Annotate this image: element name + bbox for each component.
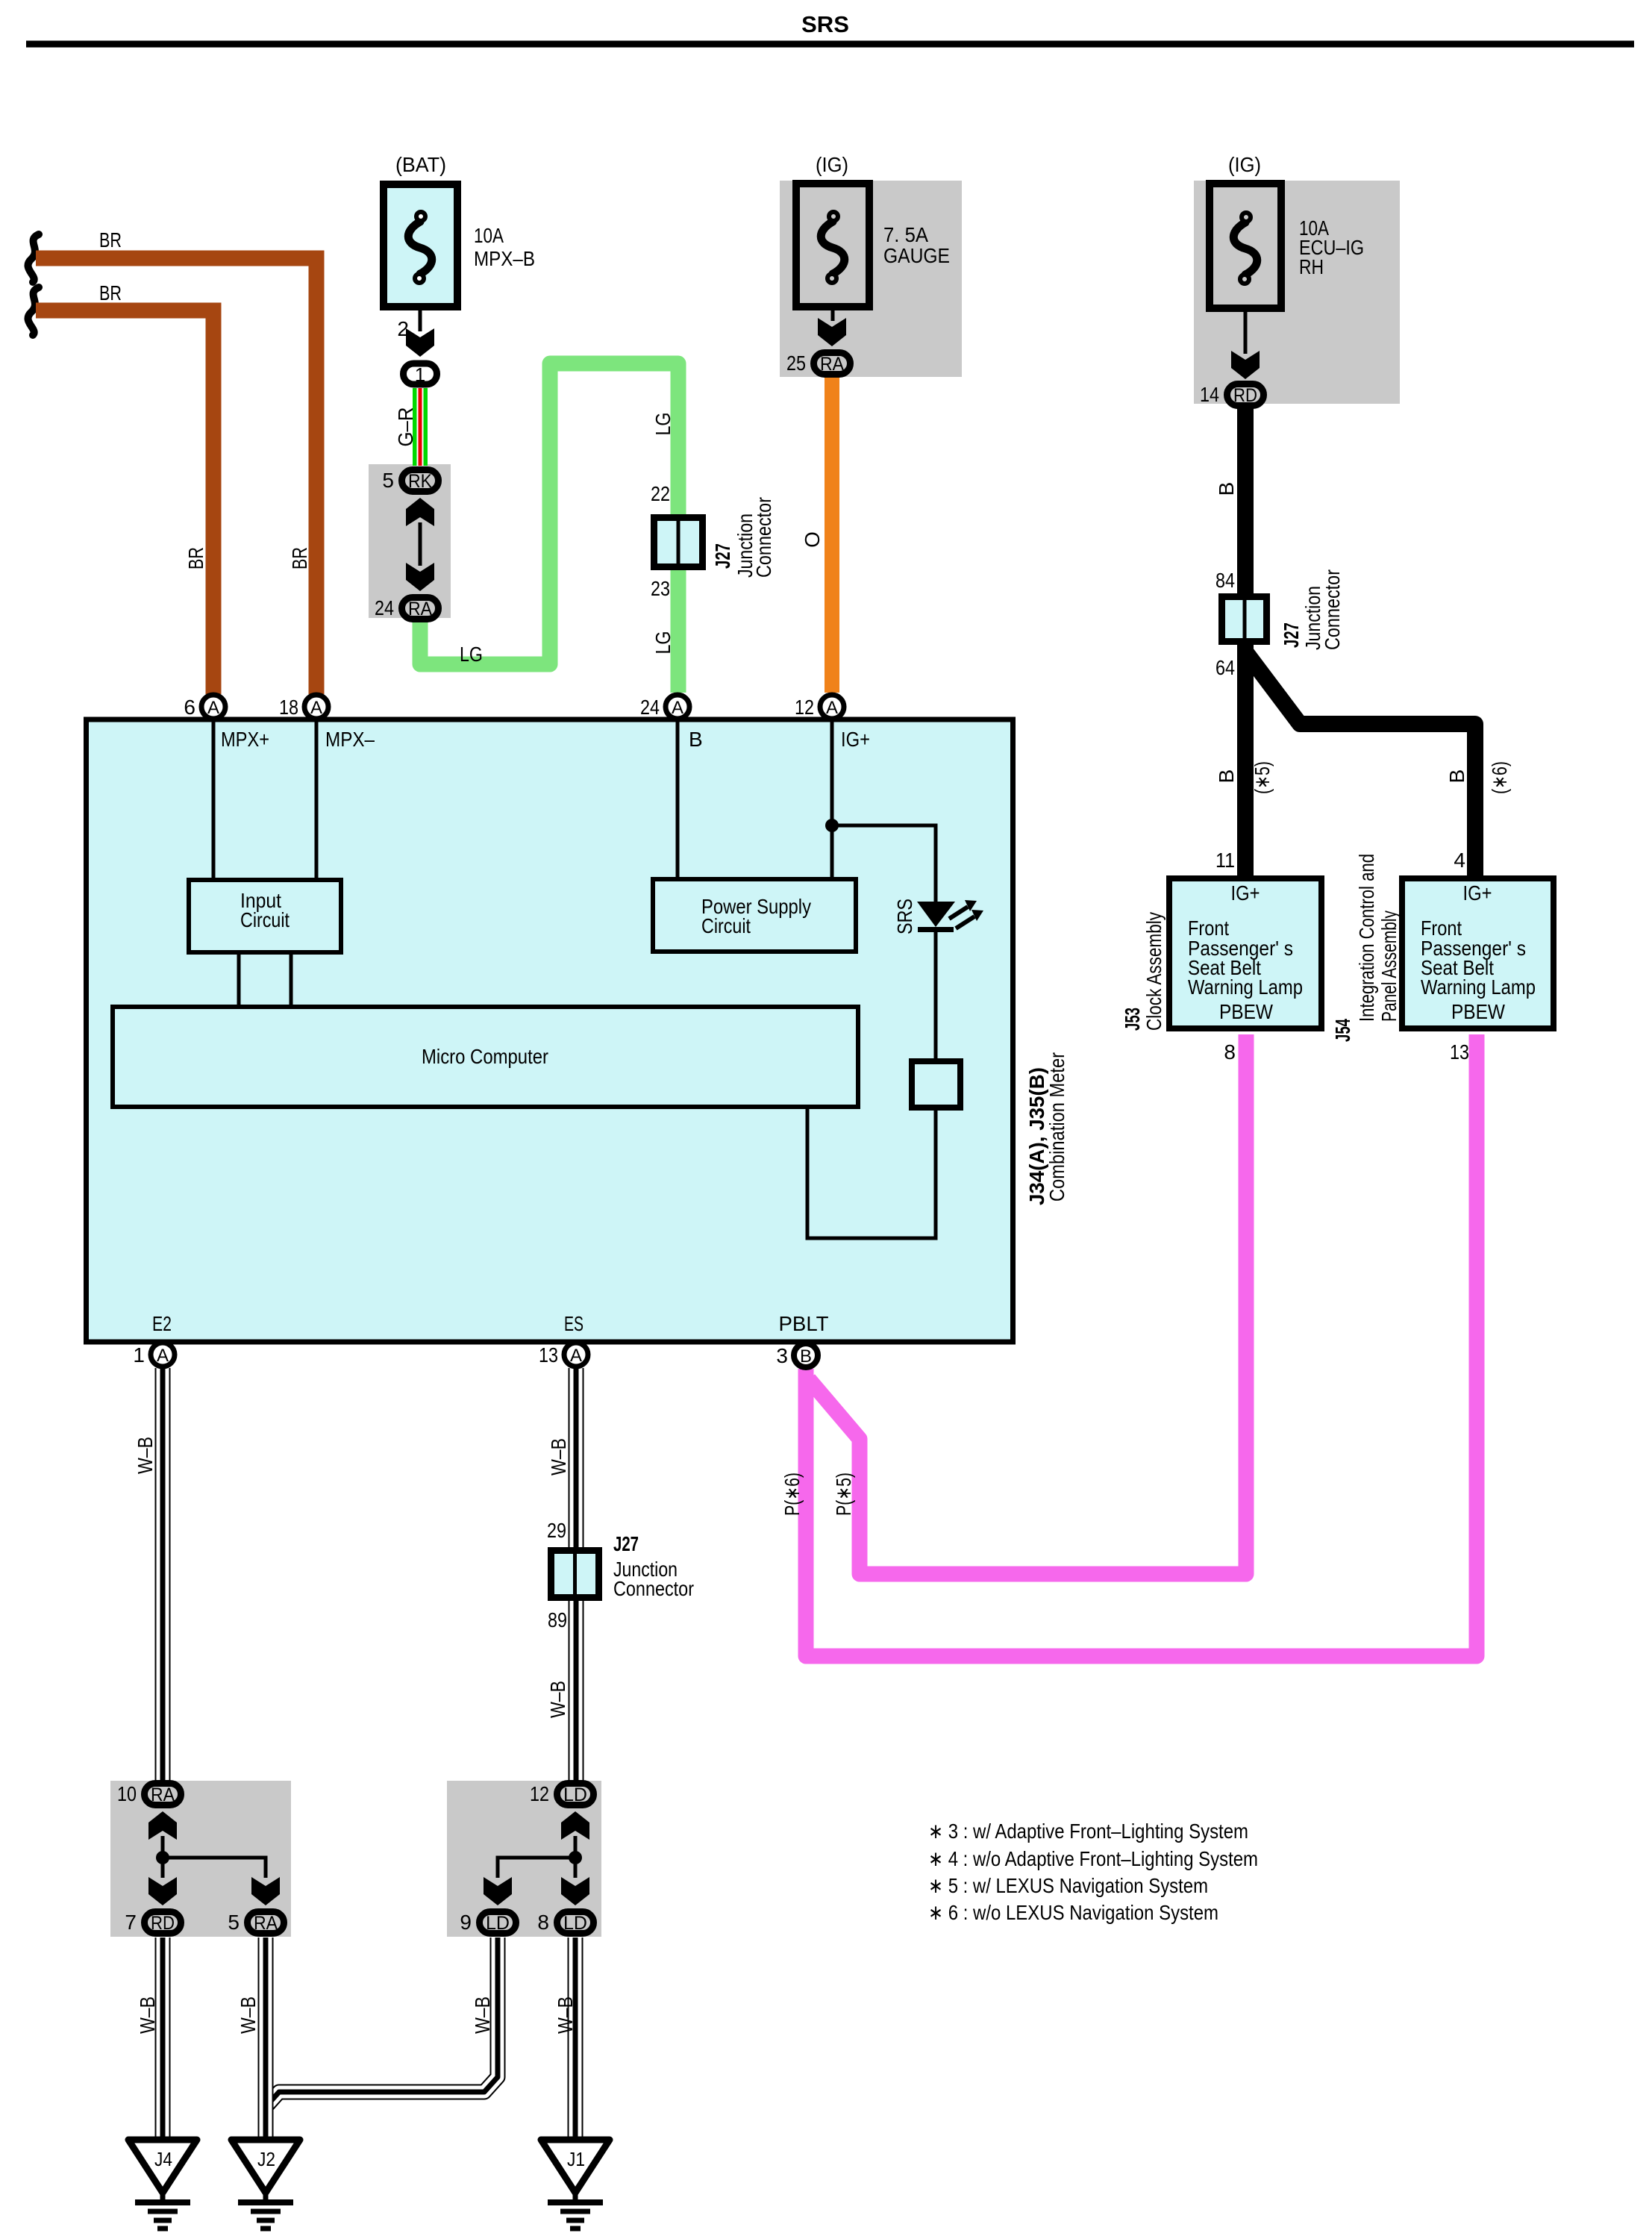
svg-text:∗ 5 : w/ LEXUS Navigation Syst: ∗ 5 : w/ LEXUS Navigation System [928, 1874, 1208, 1897]
svg-text:8: 8 [537, 1911, 549, 1934]
label J54 Integration Control and Panel Assembly rotated [1331, 854, 1401, 1042]
input circuit box [189, 880, 341, 952]
arrow up into 10RA [148, 1811, 177, 1840]
wire W-B from pin 13 ES to 12LD through J27 [569, 1368, 584, 1781]
svg-text:24: 24 [640, 696, 660, 719]
svg-text:W–B: W–B [237, 1996, 260, 2034]
svg-text:GAUGE: GAUGE [883, 244, 950, 267]
arrow down into 8LD [561, 1877, 589, 1905]
pin 6 label [184, 696, 195, 719]
svg-text:A: A [310, 698, 322, 718]
pin 10 label [117, 1782, 137, 1805]
pin name MPX- [325, 728, 375, 751]
connector 5 RA [248, 1912, 284, 1934]
pin 13 A connector [564, 1343, 588, 1367]
pin name PBLT [779, 1312, 829, 1335]
pin 24 label [375, 596, 394, 619]
svg-text:J53: J53 [1121, 1008, 1144, 1031]
shield grey box of connectors 10RA/7RD/5RA [110, 1781, 291, 1937]
svg-text:ES: ES [564, 1312, 583, 1335]
LED emission arrows [949, 900, 983, 928]
connector 24 RA [402, 598, 439, 620]
fuse MPX-B label (BAT) [395, 153, 446, 176]
junction dot left group [156, 1851, 169, 1864]
svg-text:PBLT: PBLT [779, 1312, 829, 1335]
svg-text:P(∗5): P(∗5) [832, 1473, 855, 1516]
arrow into 25RA [818, 318, 846, 346]
svg-text:IG+: IG+ [841, 728, 870, 751]
svg-text:A: A [157, 1346, 169, 1366]
pin 1 A connector [151, 1343, 175, 1367]
junction connector J27 (22/23) box [654, 518, 703, 567]
svg-text:Circuit: Circuit [701, 914, 751, 937]
arrow into 14RD [1231, 351, 1260, 379]
pin 12 A connector [820, 695, 844, 719]
svg-text:W–B: W–B [554, 1996, 577, 2034]
svg-text:W–B: W–B [471, 1996, 494, 2034]
wire LG loop from 24RA to pin 24 [420, 363, 678, 693]
pin 12 label [795, 696, 814, 719]
label B rotated right branch [1445, 769, 1468, 784]
fuse ECU-IG box [1210, 184, 1281, 308]
pin name B [689, 728, 703, 751]
label P(*6) rotated [780, 1473, 804, 1516]
pin 3 label [776, 1344, 788, 1367]
note *4 [928, 1847, 1258, 1870]
wire P pink from pin 3 PBLT to J54 pin 13 [806, 1034, 1477, 1656]
J53 clock assembly box [1169, 878, 1321, 1028]
wire fuse MPX-B to connector 1 [419, 310, 422, 331]
label Input Circuit [240, 889, 290, 931]
label PBEW J54 [1451, 1000, 1505, 1023]
svg-text:RA: RA [151, 1784, 175, 1805]
ground J4 [128, 2140, 197, 2229]
svg-text:7. 5A: 7. 5A [883, 223, 928, 246]
label Micro Computer [422, 1045, 548, 1068]
svg-text:A: A [826, 698, 838, 718]
pin 18 label [279, 696, 298, 719]
connector 14 RD [1227, 384, 1264, 407]
note *3 [928, 1820, 1248, 1843]
svg-text:LG: LG [651, 631, 675, 655]
wire B black from 14RD to J53 pin 11 [1237, 407, 1254, 878]
pin 12 label (bottom) [530, 1782, 549, 1805]
fuse GAUGE label (IG) [816, 153, 848, 176]
LED SRS indicator [917, 902, 955, 932]
junction dot right group [569, 1851, 582, 1864]
svg-text:LG: LG [460, 643, 483, 666]
svg-text:18: 18 [279, 696, 298, 719]
fuse GAUGE element [821, 212, 845, 283]
svg-text:W–B: W–B [546, 1681, 569, 1718]
pin name IG+ [841, 728, 870, 751]
label J27 rotated [711, 543, 734, 569]
svg-text:J27: J27 [1280, 622, 1303, 648]
label B rotated top [1215, 482, 1238, 496]
pin 4 label [1454, 849, 1465, 872]
svg-text:10: 10 [117, 1782, 137, 1805]
label J34(A), J35(B) Combination Meter rotated [1025, 1052, 1069, 1205]
svg-text:13: 13 [539, 1343, 558, 1367]
label J53 Clock Assembly rotated [1121, 912, 1166, 1031]
label IG+ J54 [1463, 881, 1492, 905]
svg-text:J54: J54 [1331, 1019, 1354, 1042]
svg-text:Connector: Connector [613, 1577, 694, 1600]
label LG rotated above J27 [651, 413, 675, 436]
pin 2 label [397, 317, 409, 340]
pin 11 label [1215, 849, 1235, 872]
label W-B rotated on 5RA wire [237, 1996, 260, 2034]
svg-text:LD: LD [486, 1913, 510, 1934]
svg-text:(∗5): (∗5) [1251, 761, 1274, 794]
label LG horizontal [460, 643, 483, 666]
label BR rotated left wire [184, 547, 207, 569]
svg-text:A: A [570, 1346, 582, 1366]
svg-text:10A: 10A [474, 224, 504, 247]
internal wires left connector group [163, 1836, 266, 1878]
svg-text:Micro Computer: Micro Computer [422, 1045, 548, 1068]
svg-text:RA: RA [254, 1913, 278, 1934]
svg-text:BR: BR [184, 547, 207, 569]
svg-text:Combination Meter: Combination Meter [1045, 1052, 1069, 1202]
note *6 [928, 1901, 1218, 1924]
ground J2 [231, 2140, 300, 2229]
wire fuse ECU-IG to 14RD [1244, 312, 1248, 354]
label Junction Connector rotated (3rd) [1301, 569, 1344, 650]
svg-text:LD: LD [563, 1784, 587, 1805]
svg-text:Integration Control and: Integration Control and [1355, 854, 1378, 1022]
label W-B rotated on ES wire above J27 [547, 1438, 570, 1476]
label W-B rotated on 8LD wire [554, 1996, 577, 2034]
arrow up into 5RK [406, 498, 434, 526]
svg-text:Connector: Connector [1321, 569, 1344, 650]
svg-text:LG: LG [651, 413, 675, 436]
wire break squiggle lower BR [28, 287, 39, 335]
svg-text:∗ 4 : w/o Adaptive Front–Light: ∗ 4 : w/o Adaptive Front–Lighting System [928, 1847, 1258, 1870]
svg-text:RD: RD [151, 1913, 175, 1934]
fuse ECU-IG label (IG) [1228, 153, 1261, 176]
label BR lower [99, 281, 122, 305]
svg-text:RA: RA [820, 354, 844, 375]
wire IG+ branch to LED [832, 825, 936, 902]
svg-text:24: 24 [375, 596, 394, 619]
svg-text:W–B: W–B [134, 1437, 157, 1474]
svg-text:Clock Assembly: Clock Assembly [1142, 912, 1166, 1031]
pin 8 label (bottom) [537, 1911, 549, 1934]
svg-text:12: 12 [530, 1782, 549, 1805]
pin 1 label [133, 1343, 145, 1367]
svg-text:(IG): (IG) [1228, 153, 1261, 176]
wire B black branch to J54 pin 4 [1245, 652, 1475, 878]
fuse MPX-B element [408, 212, 432, 283]
svg-text:25: 25 [786, 352, 806, 375]
svg-text:23: 23 [651, 577, 670, 600]
svg-text:IG+: IG+ [1231, 881, 1260, 905]
label Front Passenger's Seat Belt Warning Lamp J54 [1421, 916, 1536, 999]
pin 13 label [539, 1343, 558, 1367]
title SRS [801, 11, 849, 37]
svg-text:RK: RK [408, 471, 432, 492]
arrow down into 24RA [406, 563, 434, 591]
svg-text:BR: BR [99, 228, 122, 252]
wire pin24 to power supply circuit [676, 722, 680, 878]
pin name ES [564, 1312, 583, 1335]
svg-text:O: O [801, 531, 824, 548]
ground J1 [541, 2140, 610, 2229]
junction dot on IG+ wire [825, 819, 839, 832]
pin 24 label [640, 696, 660, 719]
svg-text:7: 7 [125, 1911, 137, 1934]
svg-text:J4: J4 [154, 2148, 172, 2170]
pin 29 label [547, 1519, 566, 1542]
svg-text:G–R: G–R [394, 407, 417, 447]
pin name E2 [152, 1312, 172, 1335]
svg-text:8: 8 [1224, 1040, 1236, 1064]
label W-B rotated on 9LD wire [471, 1996, 494, 2034]
svg-text:W–B: W–B [547, 1438, 570, 1476]
shield grey box of connectors RK/RA [369, 464, 451, 618]
micro computer box [113, 1007, 858, 1107]
svg-text:∗ 3 : w/ Adaptive Front–Lighti: ∗ 3 : w/ Adaptive Front–Lighting System [928, 1820, 1248, 1843]
J54 integration control box [1402, 878, 1554, 1028]
svg-text:B: B [800, 1346, 812, 1367]
pin 25 label [786, 352, 806, 375]
svg-text:PBEW: PBEW [1451, 1000, 1505, 1023]
svg-text:84: 84 [1215, 569, 1235, 592]
wire resistor to micro computer loop [807, 1109, 936, 1238]
arrow into connector 1 [406, 328, 434, 357]
svg-text:A: A [672, 698, 683, 718]
connector 10 RA [145, 1784, 181, 1806]
header rule [26, 41, 1634, 48]
svg-text:A: A [207, 698, 219, 718]
svg-text:1: 1 [133, 1343, 145, 1367]
fuse ECU-IG element [1233, 213, 1257, 284]
wire W-B from 7RD to ground J4 [155, 1937, 171, 2139]
svg-text:J2: J2 [257, 2148, 275, 2170]
pin 24 A connector [666, 695, 689, 719]
svg-text:MPX–: MPX– [325, 728, 375, 751]
svg-text:BR: BR [288, 547, 311, 569]
wire O orange from 25RA to pin 12 [825, 377, 839, 693]
svg-text:RD: RD [1233, 385, 1257, 406]
svg-text:3: 3 [776, 1344, 788, 1367]
svg-text:12: 12 [795, 696, 814, 719]
wire pin18 to input circuit [315, 722, 319, 878]
svg-text:MPX+: MPX+ [221, 728, 269, 751]
label Front Passenger's Seat Belt Warning Lamp J53 [1188, 916, 1303, 999]
wire W-B from 8LD to ground J1 [568, 1937, 583, 2139]
svg-text:E2: E2 [152, 1312, 172, 1335]
svg-text:RH: RH [1299, 255, 1324, 278]
svg-text:4: 4 [1454, 849, 1465, 872]
pin 6 A connector [201, 695, 225, 719]
wire BR lower (MPX+) to pin 6 [36, 310, 213, 694]
svg-text:(IG): (IG) [816, 153, 848, 176]
label BR rotated right wire [288, 547, 311, 569]
svg-text:64: 64 [1215, 656, 1235, 679]
label 7.5A GAUGE [883, 223, 950, 267]
wire P pink branch to J53 pin 8 [809, 1034, 1246, 1574]
wire BR upper (MPX-) to pin 18 [36, 258, 316, 694]
label J27 (2nd) [613, 1532, 639, 1555]
wire W-B from pin 1 E2 to 10RA [155, 1368, 171, 1781]
label 10A MPX-B [474, 224, 535, 270]
svg-text:LD: LD [563, 1913, 587, 1934]
fuse MPX-B box [384, 184, 457, 307]
label LG rotated below J27 [651, 631, 675, 655]
wire LED to resistor [934, 932, 938, 1058]
svg-text:Warning Lamp: Warning Lamp [1188, 975, 1303, 999]
arrow up into 12LD [561, 1811, 589, 1840]
shield grey box of fuse ECU-IG [1194, 181, 1400, 404]
junction connector J27 (29/89) box [551, 1551, 599, 1598]
label IG+ J53 [1231, 881, 1260, 905]
pin 84 label [1215, 569, 1235, 592]
connector 9 LD [480, 1912, 516, 1934]
connector 12 LD [557, 1784, 594, 1806]
internal wires right connector group [498, 1836, 575, 1878]
wire break squiggle upper BR [28, 234, 39, 282]
wire W-B from 9LD crossover to J2 [266, 1937, 498, 2107]
svg-text:5: 5 [228, 1911, 240, 1934]
pin 8 label J53 [1224, 1040, 1236, 1064]
arrow down into 7RD [148, 1877, 177, 1905]
svg-text:P(∗6): P(∗6) [780, 1473, 804, 1516]
wire pin12 IG+ to power supply circuit [830, 722, 834, 878]
svg-text:5: 5 [382, 469, 394, 492]
svg-text:W–B: W–B [136, 1996, 159, 2034]
svg-text:29: 29 [547, 1519, 566, 1542]
arrow down into 9LD [484, 1877, 512, 1905]
svg-text:89: 89 [548, 1608, 567, 1631]
svg-text:6: 6 [184, 696, 195, 719]
svg-text:1: 1 [415, 363, 425, 386]
svg-text:Circuit: Circuit [240, 908, 290, 931]
label W-B rotated on 7RD wire [136, 1996, 159, 2034]
connector 25 RA [814, 353, 851, 375]
svg-text:22: 22 [651, 482, 670, 505]
shield grey box of connectors 12LD/9LD/8LD [447, 1781, 601, 1937]
label SRS rotated [893, 899, 916, 934]
pin 23 label [651, 577, 670, 600]
pin 18 A connector [304, 695, 328, 719]
label 10A ECU-IG RH [1299, 216, 1364, 278]
svg-text:∗ 6 : w/o LEXUS Navigation Sys: ∗ 6 : w/o LEXUS Navigation System [928, 1901, 1218, 1924]
label G-R rotated [394, 407, 417, 447]
pin 5 label [382, 469, 394, 492]
label J27 rotated (3rd) [1280, 622, 1303, 648]
svg-text:(BAT): (BAT) [395, 153, 446, 176]
resistor box [912, 1061, 960, 1108]
wire fuse GAUGE to 25RA [831, 310, 835, 321]
wire pin6 to input circuit [212, 722, 216, 878]
pin 89 label [548, 1608, 567, 1631]
svg-text:9: 9 [460, 1911, 472, 1934]
note *5 [928, 1874, 1208, 1897]
label BR upper [99, 228, 122, 252]
svg-text:(∗6): (∗6) [1488, 761, 1511, 794]
label W-B rotated on ES wire below J27 [546, 1681, 569, 1718]
junction connector J27 (84/64) box [1222, 597, 1267, 642]
svg-text:J27: J27 [613, 1532, 639, 1555]
arrow down into 5RA [251, 1877, 280, 1905]
svg-text:13: 13 [1450, 1040, 1469, 1064]
svg-text:J27: J27 [711, 543, 734, 569]
label P(*5) rotated [832, 1473, 855, 1516]
wire G-R from connector 1 to 5RK [413, 388, 428, 466]
svg-text:Warning Lamp: Warning Lamp [1421, 975, 1536, 999]
svg-text:IG+: IG+ [1463, 881, 1492, 905]
pin 5 label (bottom) [228, 1911, 240, 1934]
label Junction Connector (2nd) [613, 1558, 694, 1600]
label Junction Connector rotated [733, 497, 775, 578]
label B rotated left branch [1215, 769, 1238, 784]
svg-text:B: B [1445, 769, 1468, 784]
svg-text:SRS: SRS [801, 11, 849, 37]
shield grey box of fuse GAUGE [780, 181, 962, 377]
connector 1 [404, 363, 437, 386]
power supply circuit box [653, 879, 856, 952]
pin 64 label [1215, 656, 1235, 679]
pin 9 label [460, 1911, 472, 1934]
connector 7 RD [145, 1912, 181, 1934]
svg-text:B: B [1215, 769, 1238, 784]
label O rotated [801, 531, 824, 548]
svg-text:B: B [689, 728, 703, 751]
svg-text:BR: BR [99, 281, 122, 305]
label (*5) rotated left branch [1251, 761, 1274, 794]
svg-text:11: 11 [1215, 849, 1235, 872]
pin 14 label [1200, 383, 1219, 406]
connector 5 RK [402, 470, 439, 493]
combination meter J34(A) J35(B) box [87, 719, 1013, 1342]
connector 8 LD [557, 1912, 594, 1934]
svg-text:J1: J1 [567, 2148, 585, 2170]
label PBEW J53 [1219, 1000, 1273, 1023]
svg-text:Connector: Connector [752, 497, 775, 578]
svg-text:B: B [1215, 482, 1238, 496]
wires input circuit to micro computer [239, 955, 291, 1005]
svg-text:Panel Assembly: Panel Assembly [1377, 911, 1401, 1022]
pin 7 label [125, 1911, 137, 1934]
label W-B rotated on E2 wire [134, 1437, 157, 1474]
svg-text:RA: RA [408, 599, 432, 619]
pin 22 label [651, 482, 670, 505]
fuse GAUGE box [796, 184, 869, 307]
svg-text:14: 14 [1200, 383, 1219, 406]
wire between RK and RA [419, 522, 422, 566]
svg-text:PBEW: PBEW [1219, 1000, 1273, 1023]
pin 3 B connector [794, 1343, 818, 1367]
label (*6) rotated right branch [1488, 761, 1511, 794]
svg-text:SRS: SRS [893, 899, 916, 934]
svg-text:MPX–B: MPX–B [474, 247, 535, 270]
pin name MPX+ [221, 728, 269, 751]
label Power Supply Circuit [701, 895, 811, 937]
wire W-B from 5RA to ground J2 [258, 1937, 274, 2139]
pin 13 label J54 [1450, 1040, 1469, 1064]
